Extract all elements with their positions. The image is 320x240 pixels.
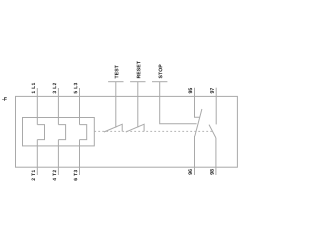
STOP button bar [152, 81, 167, 83]
thermal element block [23, 118, 95, 146]
RESET button bar [130, 81, 145, 83]
terminal label 5/L3 [74, 83, 77, 94]
terminal label 98 [210, 169, 214, 174]
terminal label 96 [188, 169, 192, 174]
terminal label 97 [210, 88, 214, 93]
NC contact lower terminal 96 [194, 136, 196, 175]
terminal label 2/T1 [32, 170, 35, 181]
wire pole3 bottom terminal 6/T3 [79, 140, 81, 175]
heater element pole3 [80, 125, 87, 140]
terminal label 4/T2 [53, 170, 56, 181]
wire pole2 top terminal 3/L2 [57, 88, 59, 125]
NC contact moving arm [195, 109, 202, 136]
terminal label 95 [188, 88, 192, 93]
trip linkage (dashed) [94, 130, 212, 132]
NC contact fixed terminal 95 [195, 88, 200, 118]
TEST button stem [115, 82, 117, 128]
terminal label 1/L1 [32, 83, 35, 93]
wire pole2 bottom terminal 4/T2 [57, 140, 59, 175]
TEST button label [115, 65, 119, 78]
NO contact fixed terminal 97 [215, 88, 217, 125]
TEST button bar [108, 81, 123, 83]
trip ramp (RESET) [126, 124, 144, 132]
terminal label 3/L2 [53, 83, 56, 94]
wire pole1 bottom terminal 2/T1 [36, 140, 38, 175]
heater element pole2 [58, 125, 65, 140]
trip ramp (TEST) [104, 124, 122, 132]
NO contact lower terminal 98 [215, 138, 217, 175]
RESET button label [137, 61, 141, 78]
heater element pole1 [37, 125, 44, 140]
overload relay outline [16, 96, 238, 167]
wire pole3 top terminal 5/L3 [79, 88, 81, 125]
STOP button label [159, 64, 163, 78]
RESET button stem [137, 82, 139, 128]
terminal label 6/T3 [74, 170, 77, 181]
reference designator -F [2, 97, 6, 100]
NO contact moving arm [209, 125, 216, 138]
STOP button stem and link to NC contact [160, 82, 197, 124]
wire pole1 top terminal 1/L1 [36, 88, 38, 125]
